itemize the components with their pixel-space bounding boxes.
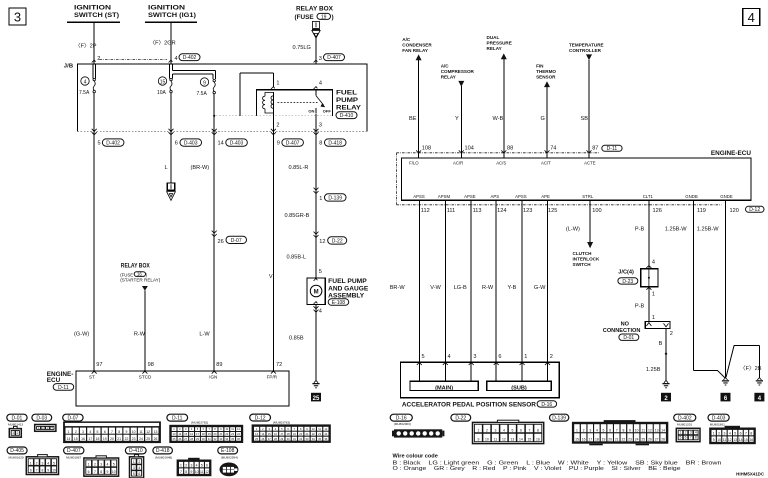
svg-text:7: 7: [528, 429, 530, 433]
svg-text:10: 10: [52, 469, 56, 473]
svg-text:1: 1: [133, 460, 135, 464]
svg-text:3: 3: [319, 56, 322, 62]
svg-text:RELAY: RELAY: [336, 105, 362, 112]
svg-text:A/C: A/C: [441, 63, 450, 68]
junction arrow relay pin4: [314, 87, 318, 89]
svg-text:7: 7: [180, 470, 182, 474]
svg-text:125: 125: [548, 208, 557, 214]
svg-text:0.85L-R: 0.85L-R: [289, 165, 309, 171]
wire B to ground 2: [665, 328, 667, 380]
svg-text:D-402: D-402: [678, 415, 692, 421]
wire relay contact to pin3: [315, 114, 317, 132]
svg-text:3: 3: [47, 425, 49, 429]
svg-text:5: 5: [201, 464, 203, 468]
svg-text:1.25B-W: 1.25B-W: [697, 226, 719, 232]
label 9 D-407: [277, 139, 304, 147]
no connection label: [603, 321, 641, 341]
svg-text:1: 1: [713, 432, 715, 436]
svg-text:2: 2: [42, 425, 44, 429]
J/B bus from pin4 to fuses 15 and 9: [170, 64, 216, 79]
svg-text:GNDB: GNDB: [685, 194, 698, 199]
svg-text:3: 3: [190, 464, 192, 468]
svg-text:(MU802594): (MU802594): [221, 455, 238, 459]
svg-text:P-B: P-B: [635, 226, 645, 232]
svg-text:D-07: D-07: [67, 415, 78, 421]
connector chart D-07: [63, 414, 83, 421]
connector D-11 ref top: [602, 145, 622, 152]
svg-text:21: 21: [615, 438, 619, 442]
ignition switch (IG1): [145, 5, 197, 22]
wire SB to pin 87: [588, 60, 590, 158]
svg-text:D-22: D-22: [332, 238, 343, 244]
svg-text:PRESSURE: PRESSURE: [487, 40, 512, 45]
svg-text:D-23: D-23: [622, 279, 633, 285]
svg-text:O : Orange GR : Grey R :: O : Orange GR : Grey R : Red P : Pink V …: [393, 466, 681, 472]
wire fuse9 to relay coil: [213, 73, 273, 117]
svg-text:12: 12: [728, 438, 732, 442]
svg-text:1: 1: [180, 464, 182, 468]
ECU top pin names: [409, 160, 596, 165]
svg-text:18: 18: [595, 438, 599, 442]
label 8 D-418: [319, 139, 346, 147]
svg-text:15: 15: [744, 438, 748, 442]
svg-text:FUEL PUMP: FUEL PUMP: [328, 278, 367, 285]
svg-text:7.5A: 7.5A: [79, 90, 90, 96]
svg-text:CONNECTION: CONNECTION: [603, 328, 641, 334]
svg-text:74: 74: [550, 146, 556, 152]
svg-text:7: 7: [94, 470, 96, 474]
chevrons 8 D-418: [314, 129, 319, 135]
connector D-402 ref: [179, 54, 200, 61]
svg-text:4: 4: [448, 354, 451, 360]
svg-text:9: 9: [190, 470, 192, 474]
svg-text:CONTROLLER: CONTROLLER: [569, 48, 602, 53]
svg-text:E-108: E-108: [221, 448, 235, 454]
svg-text:PUMP: PUMP: [336, 97, 359, 104]
svg-text:〈F〉2B: 〈F〉2B: [740, 365, 762, 372]
ground 2: [661, 380, 671, 401]
svg-text:APSE: APSE: [464, 194, 476, 199]
svg-text:9: 9: [713, 438, 715, 442]
svg-text:9: 9: [126, 430, 128, 434]
svg-text:(FUSE: (FUSE: [295, 14, 315, 21]
svg-text:D-07: D-07: [231, 238, 242, 244]
connector chart D-403: [708, 414, 729, 421]
svg-text:14: 14: [519, 438, 523, 442]
svg-text:Y-B: Y-B: [508, 285, 517, 291]
connector D-407 ref: [324, 54, 345, 61]
svg-text:4: 4: [596, 429, 598, 433]
svg-text:G: G: [541, 116, 545, 122]
wire W-B to pin 88: [503, 59, 505, 158]
svg-text:20: 20: [110, 437, 114, 441]
fuse 4 (7.5A): [79, 77, 95, 96]
svg-text:D-01: D-01: [623, 335, 634, 341]
dual pressure relay: [487, 35, 512, 59]
svg-text:5: 5: [53, 461, 55, 465]
A/C condenser fan relay: [402, 37, 432, 60]
svg-text:THERMO: THERMO: [536, 69, 556, 74]
svg-text:MU801867: MU801867: [66, 456, 81, 460]
svg-text:1: 1: [68, 430, 70, 434]
svg-text:IGNITION: IGNITION: [148, 5, 185, 12]
svg-text:D-22: D-22: [455, 415, 466, 421]
ignition switch (ST): [67, 5, 120, 22]
svg-text:): ): [332, 14, 334, 21]
joint connector J/C(4): [641, 266, 658, 290]
svg-text:D-418: D-418: [156, 448, 170, 454]
svg-text:8: 8: [750, 432, 752, 436]
chevrons 9 D-407: [271, 129, 276, 135]
svg-text:2: 2: [36, 461, 38, 465]
dashed link pin2 to pin4: [100, 59, 168, 61]
svg-text:108: 108: [422, 146, 431, 152]
svg-text:19: 19: [321, 14, 327, 20]
chevrons 5 D-402: [92, 129, 97, 135]
svg-text:CLUTCH: CLUTCH: [573, 251, 593, 256]
svg-text:1: 1: [524, 354, 527, 360]
svg-text:7.5A: 7.5A: [197, 91, 208, 97]
no connection box: [645, 321, 670, 328]
CLT1 wire P-B upper: [648, 200, 650, 268]
svg-text:D-139: D-139: [552, 415, 566, 421]
svg-text:D-403: D-403: [230, 141, 244, 147]
svg-text:1: 1: [477, 429, 479, 433]
svg-text:B: B: [659, 341, 663, 347]
chevrons below pump: [314, 306, 319, 312]
svg-text:9: 9: [477, 438, 479, 442]
svg-text:(BR-W): (BR-W): [191, 165, 210, 171]
svg-text:1: 1: [319, 196, 322, 202]
svg-text:RELAY: RELAY: [441, 74, 456, 79]
svg-text:0.85B-L: 0.85B-L: [287, 254, 307, 260]
svg-text:1: 1: [680, 431, 682, 435]
label 12 D-22: [319, 237, 346, 245]
accelerator pedal sensor label: [402, 401, 557, 409]
svg-text:23: 23: [628, 438, 632, 442]
svg-text:88: 88: [507, 146, 513, 152]
svg-text:INTERLOCK: INTERLOCK: [573, 257, 600, 262]
fuel pump label: [328, 278, 369, 306]
svg-text:26: 26: [154, 437, 158, 441]
svg-text:113: 113: [473, 208, 482, 214]
svg-text:OFF: OFF: [323, 108, 332, 113]
sensor wire 123: [521, 200, 523, 381]
svg-text:AC/S: AC/S: [496, 160, 506, 165]
branch wire to ground 4: [726, 345, 759, 377]
svg-text:7: 7: [690, 436, 692, 440]
clutch wire (L-W): [587, 200, 593, 248]
svg-text:SB: SB: [581, 116, 589, 122]
svg-text:1: 1: [576, 429, 578, 433]
svg-text:25: 25: [313, 396, 320, 402]
svg-text:0.85GR-B: 0.85GR-B: [285, 213, 310, 219]
svg-text:4: 4: [695, 431, 697, 435]
svg-text:FP/R: FP/R: [267, 375, 278, 380]
wire relay coil to pin2: [272, 92, 274, 132]
svg-text:4: 4: [652, 259, 655, 265]
svg-text:8: 8: [695, 436, 697, 440]
svg-text:6: 6: [175, 141, 178, 147]
svg-text:111: 111: [447, 208, 456, 214]
svg-text:10: 10: [485, 438, 489, 442]
svg-text:D-402: D-402: [106, 141, 120, 147]
svg-text:APE: APE: [541, 194, 550, 199]
svg-text:RELAY BOX: RELAY BOX: [296, 6, 334, 13]
svg-text:98: 98: [148, 362, 154, 368]
connector chart D-418: [153, 447, 173, 454]
svg-text:1: 1: [276, 81, 279, 87]
svg-text:16: 16: [536, 438, 540, 442]
chevrons 1 D-139: [314, 188, 319, 194]
svg-text:4: 4: [51, 425, 53, 429]
svg-text:(STARTER RELAY): (STARTER RELAY): [120, 277, 161, 282]
svg-text:(MU803782): (MU803782): [191, 421, 208, 425]
svg-text:D-11: D-11: [172, 415, 183, 421]
svg-text:1: 1: [30, 461, 32, 465]
sensor MAIN element: [410, 381, 478, 391]
svg-text:GNDE: GNDE: [720, 194, 733, 199]
sensor wire 124: [495, 200, 497, 381]
svg-text:1: 1: [652, 291, 655, 297]
svg-text:15: 15: [528, 438, 532, 442]
svg-text:87: 87: [592, 146, 598, 152]
svg-text:〈F〉2P: 〈F〉2P: [75, 43, 97, 50]
svg-text:2: 2: [276, 123, 279, 129]
svg-text:6: 6: [30, 469, 32, 473]
svg-text:3: 3: [589, 429, 591, 433]
sensor SUB element: [487, 381, 552, 391]
svg-text:7: 7: [111, 430, 113, 434]
svg-text:AC/T: AC/T: [541, 160, 551, 165]
svg-text:10: 10: [635, 429, 639, 433]
svg-text:16: 16: [81, 437, 85, 441]
svg-text:4: 4: [47, 461, 49, 465]
svg-text:2: 2: [685, 431, 687, 435]
sensor wire 125: [547, 200, 549, 381]
svg-text:6: 6: [138, 472, 140, 476]
svg-text:DUAL: DUAL: [487, 35, 500, 40]
svg-text:8: 8: [622, 429, 624, 433]
chevrons 6 D-403: [169, 129, 174, 135]
svg-text:1: 1: [88, 463, 90, 467]
svg-text:89: 89: [216, 362, 222, 368]
svg-text:2: 2: [670, 331, 673, 337]
svg-text:16: 16: [582, 438, 586, 442]
svg-text:D-402: D-402: [183, 55, 197, 61]
wire colour code: [393, 454, 722, 472]
svg-text:3: 3: [82, 430, 84, 434]
svg-text:11: 11: [200, 470, 204, 474]
svg-text:7: 7: [745, 432, 747, 436]
svg-text:(MU801948): (MU801948): [155, 455, 172, 459]
clutch interlock switch label: [573, 251, 600, 267]
wire fuel pump relay feed: [315, 38, 317, 64]
svg-text:D-139: D-139: [328, 195, 342, 201]
svg-text:2: 2: [185, 464, 187, 468]
off-page connector below fuse15: [167, 183, 176, 200]
connector chart D-402: [674, 414, 696, 421]
svg-text:10A: 10A: [157, 90, 167, 96]
svg-text:28: 28: [661, 438, 665, 442]
chevrons 26 D-07: [212, 231, 217, 237]
svg-text:4: 4: [107, 463, 109, 467]
svg-text:14: 14: [67, 437, 71, 441]
svg-text:10: 10: [195, 470, 199, 474]
svg-text:4: 4: [138, 466, 140, 470]
svg-text:1.25B-W: 1.25B-W: [665, 226, 687, 232]
svg-text:14: 14: [218, 141, 224, 147]
svg-text:R-W: R-W: [134, 332, 146, 338]
starter relay feed: [120, 263, 161, 291]
svg-text:6: 6: [609, 429, 611, 433]
svg-text:D-407: D-407: [286, 141, 300, 147]
svg-text:119: 119: [697, 208, 706, 214]
svg-text:SENSOR: SENSOR: [536, 74, 556, 79]
fin thermo sensor: [536, 63, 556, 87]
svg-text:4: 4: [319, 81, 322, 87]
svg-text:BR-W: BR-W: [390, 285, 406, 291]
svg-text:P-B: P-B: [635, 303, 645, 309]
svg-text:Wire colour code: Wire colour code: [393, 454, 438, 460]
svg-text:(MU802003): (MU802003): [394, 422, 411, 426]
svg-text:2: 2: [94, 463, 96, 467]
svg-text:APSS: APSS: [515, 194, 527, 199]
svg-text:12: 12: [205, 470, 209, 474]
connector chart D-11: [167, 414, 188, 421]
page number box 4: [743, 9, 760, 26]
svg-text:2: 2: [138, 460, 140, 464]
svg-text:97: 97: [96, 362, 102, 368]
svg-text:5: 5: [113, 463, 115, 467]
svg-text:4: 4: [729, 432, 731, 436]
svg-text:1.25B: 1.25B: [646, 367, 661, 373]
connector chart D-139: [550, 414, 569, 421]
svg-text:3: 3: [494, 429, 496, 433]
accelerator pedal position sensor box: [401, 362, 560, 397]
svg-text:10: 10: [132, 430, 136, 434]
svg-text:V-W: V-W: [430, 285, 441, 291]
svg-text:10: 10: [112, 470, 116, 474]
svg-text:R-W: R-W: [482, 285, 494, 291]
svg-text:104: 104: [465, 146, 474, 152]
svg-text:6: 6: [520, 429, 522, 433]
svg-text:12: 12: [648, 429, 652, 433]
junction block J/B: [64, 64, 367, 132]
svg-text:100: 100: [592, 208, 601, 214]
wire fuse9 down: [213, 94, 215, 371]
svg-text:D-407: D-407: [327, 55, 341, 61]
svg-text:MU801201: MU801201: [677, 423, 692, 427]
svg-text:J/B: J/B: [64, 64, 73, 70]
svg-text:MU801861: MU801861: [710, 423, 725, 427]
svg-text:A/C: A/C: [402, 37, 411, 42]
connector chart E-108: [218, 447, 238, 454]
GNDB wire 1.25B-W: [694, 200, 726, 378]
svg-text:5: 5: [98, 141, 101, 147]
svg-text:APSS: APSS: [413, 194, 425, 199]
svg-text:9: 9: [47, 469, 49, 473]
svg-text:6: 6: [206, 464, 208, 468]
svg-text:D-11: D-11: [58, 385, 69, 391]
svg-text:11: 11: [642, 429, 646, 433]
connector chart D-01: [7, 414, 27, 421]
svg-text:6: 6: [88, 470, 90, 474]
svg-text:MU801620: MU801620: [9, 456, 24, 460]
svg-text:22: 22: [125, 437, 129, 441]
svg-text:D-405: D-405: [10, 448, 24, 454]
svg-text:12: 12: [502, 438, 506, 442]
ECU bottom pin names: [413, 194, 733, 199]
junction arrow relay pin1: [271, 87, 275, 89]
relay actuation dashed: [278, 102, 319, 104]
svg-text:RELAY: RELAY: [487, 46, 502, 51]
svg-text:72: 72: [276, 362, 282, 368]
svg-text:RELAY BOX: RELAY BOX: [121, 263, 151, 270]
page number box 3: [9, 8, 26, 25]
svg-text:14: 14: [739, 438, 743, 442]
svg-text:26: 26: [648, 438, 652, 442]
svg-text:13: 13: [511, 438, 515, 442]
svg-text:17: 17: [588, 438, 592, 442]
svg-text:D-403: D-403: [712, 415, 726, 421]
svg-text:D-407: D-407: [67, 448, 81, 454]
connector chart D-16: [390, 414, 412, 421]
wire fuse4 down: [93, 93, 95, 371]
svg-text:8: 8: [100, 470, 102, 474]
svg-text:NO: NO: [621, 321, 630, 327]
svg-text:13: 13: [655, 429, 659, 433]
J/C label: [618, 269, 638, 284]
svg-text:25: 25: [146, 437, 150, 441]
svg-text:IGN: IGN: [209, 375, 217, 380]
svg-text:3: 3: [473, 354, 476, 360]
wire BE to pin 108: [418, 60, 420, 158]
svg-text:ENGINE-ECU: ENGINE-ECU: [711, 150, 752, 157]
svg-text:HIHM5X41DC: HIHM5X41DC: [736, 472, 765, 477]
svg-text:ACTE: ACTE: [584, 160, 596, 165]
svg-text:F/LO: F/LO: [409, 160, 419, 165]
temperature controller: [569, 42, 604, 60]
svg-text:22: 22: [622, 438, 626, 442]
wire starter relay to ECU: [144, 291, 146, 371]
connector chart D-407: [64, 447, 84, 454]
fuse 9 (7.5A): [197, 78, 216, 97]
engine ECU box right: [401, 150, 751, 200]
svg-text:8: 8: [41, 469, 43, 473]
svg-text:120: 120: [730, 208, 739, 214]
svg-text:9: 9: [203, 80, 206, 86]
svg-text:(MU803783): (MU803783): [273, 421, 290, 425]
svg-text:27: 27: [655, 438, 659, 442]
svg-text:8: 8: [319, 141, 322, 147]
svg-text:4: 4: [175, 56, 178, 62]
svg-text:CLT1: CLT1: [643, 194, 654, 199]
svg-text:10: 10: [717, 438, 721, 442]
svg-text:3: 3: [14, 10, 21, 25]
svg-text:6: 6: [685, 436, 687, 440]
svg-text:23: 23: [132, 437, 136, 441]
connector chart D-12: [250, 414, 271, 421]
svg-text:AND GAUGE: AND GAUGE: [328, 285, 369, 292]
svg-text:2: 2: [718, 432, 720, 436]
ground 6: [721, 378, 731, 402]
svg-text:24: 24: [139, 437, 143, 441]
svg-text:7: 7: [616, 429, 618, 433]
svg-text:D-01: D-01: [11, 415, 22, 421]
svg-text:L: L: [165, 165, 168, 171]
svg-text:D-410: D-410: [129, 448, 143, 454]
